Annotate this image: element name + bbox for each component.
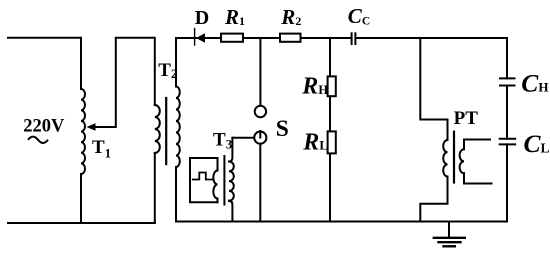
svg-text:T1: T1: [92, 137, 111, 161]
svg-text:PT: PT: [454, 108, 479, 129]
svg-text:R2: R2: [280, 5, 301, 29]
svg-text:CC: CC: [348, 4, 370, 28]
svg-text:T3: T3: [213, 129, 233, 151]
svg-text:RH: RH: [301, 74, 328, 100]
svg-text:R1: R1: [224, 5, 245, 29]
svg-text:D: D: [195, 7, 209, 29]
svg-text:CH: CH: [521, 68, 548, 97]
svg-text:S: S: [276, 116, 289, 142]
svg-text:220V: 220V: [23, 116, 65, 136]
svg-text:RL: RL: [302, 129, 328, 155]
svg-text:T2: T2: [158, 60, 177, 81]
svg-text:CL: CL: [524, 129, 550, 158]
